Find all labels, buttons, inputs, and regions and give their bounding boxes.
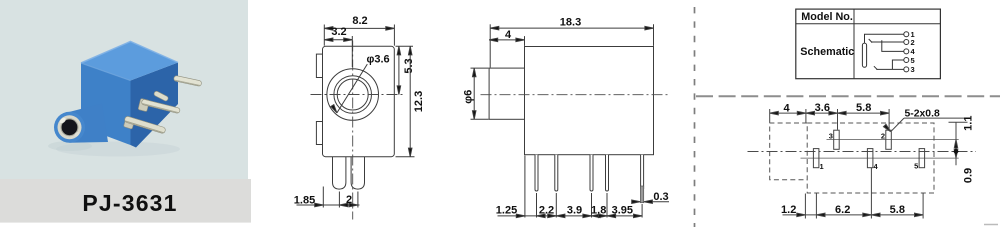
svg-text:Model No.: Model No. [801,11,853,23]
dimension 4 [489,29,524,46]
right dimensions 1.1 and 0.9 [949,116,975,184]
pcb centerline [748,151,977,153]
svg-text:5-2x0.8: 5-2x0.8 [905,109,940,120]
dimension 3.2 [324,26,352,67]
svg-text:6.2: 6.2 [835,204,850,216]
barrel hole [62,119,78,135]
pad 2 [886,130,892,149]
svg-text:1.8: 1.8 [591,204,606,216]
svg-text:3.2: 3.2 [331,26,346,38]
upper pad row line [827,139,959,141]
svg-text:3.6: 3.6 [815,102,830,114]
schematic plug bar [862,43,866,67]
horizontal centerline [311,94,404,96]
svg-text:5.8: 5.8 [890,204,905,216]
connector pin bottom lug [124,116,166,134]
wire row 5 with drop to row 3 [892,60,903,69]
junction drop wire 2-4 [882,40,904,51]
wire row 2 [871,41,904,43]
slot size callout 5-2x0.8 [883,109,968,133]
horizontal crop dash line [696,95,1000,97]
pad 1 [813,149,819,168]
side pin 5 lower gray portion [640,186,643,203]
dimension 1.85 and 2 [294,187,360,208]
barrel cylinder collar [70,104,109,143]
wire row 3 [876,68,904,70]
svg-text:4: 4 [783,102,790,114]
bottom dimension chain 1.2 6.2 5.8 [781,168,923,219]
svg-text:φ6: φ6 [463,90,475,104]
side pin 3 [590,155,593,191]
bottom dimension chain 1.25 2.2 3.9 1.8 3.95 [496,156,642,218]
side pin 5 [641,155,644,189]
side body outline [525,47,654,155]
dimension 12.3 [396,46,426,156]
bottom-right faint crop dash [984,224,998,226]
top edge highlight [81,42,178,64]
svg-text:4: 4 [874,162,879,171]
svg-text:1.1: 1.1 [963,116,975,131]
dimension 8.2 [324,15,394,46]
front left tab lower [316,122,322,145]
svg-text:8.2: 8.2 [352,15,367,27]
side barrel outline [489,68,524,119]
jack opening circles [327,69,379,121]
front left tab upper [316,54,322,77]
connector pin top-right [173,75,202,86]
svg-text:Schematic: Schematic [800,46,854,58]
dimension 0.3 pin thickness [632,191,669,203]
connector body right face [131,63,179,148]
terminal circle 5 [904,58,909,63]
svg-text:3: 3 [911,65,915,74]
side pin 4 [606,155,609,191]
terminal circle 1 [904,32,909,37]
pad 4 [867,149,873,168]
table column divider [853,9,855,79]
ring highlight [59,117,67,125]
wire to terminal 1 [865,34,904,43]
front body outline [323,46,395,156]
front-top edge highlight [81,63,131,81]
table outer border [796,9,941,79]
front pin left [333,157,346,189]
pad 5 [919,149,925,168]
svg-text:18.3: 18.3 [560,17,581,29]
vertical crop dash line [694,7,696,227]
svg-text:0.9: 0.9 [963,168,975,183]
switch tick row 3 [874,66,878,70]
dimension phi3.6 leader [331,54,390,114]
top dimension chain 4 3.6 5.8 [770,102,889,130]
connector pin middle stub [138,98,150,111]
svg-text:5: 5 [911,56,915,65]
terminal circle 4 [904,49,909,54]
switch tick row 2 [869,39,873,43]
connector pin small [153,91,169,102]
footprint dashed outline left block [770,123,808,180]
dimension 5.3 [396,46,416,94]
model label panel [0,179,251,223]
svg-text:PJ-3631: PJ-3631 [82,190,177,216]
barrel rim shading [55,132,85,143]
vertical centerline [352,41,354,220]
svg-text:2: 2 [346,194,352,206]
svg-text:5: 5 [914,162,918,171]
side pin 2 [555,155,558,191]
side pin 1 [535,155,538,191]
table header divider [796,23,941,25]
svg-text:12.3: 12.3 [413,91,425,112]
connector pin middle [141,99,180,114]
lower pad row line [801,157,959,159]
svg-text:2: 2 [881,132,885,141]
terminal circle 3 [904,67,909,72]
svg-text:0.3: 0.3 [653,191,668,203]
footprint dashed outline main block [807,123,934,193]
horizontal centerline [481,94,668,96]
svg-text:1.25: 1.25 [496,204,517,216]
connector pin bottom lug stub [123,117,135,130]
svg-text:5.8: 5.8 [856,102,871,114]
svg-text:3.9: 3.9 [567,204,582,216]
front pin right [351,157,364,189]
connector body top face [81,42,178,81]
product shadow [56,142,180,157]
barrel front rim [54,112,85,143]
pad 3 [834,130,840,149]
svg-text:1: 1 [820,162,824,171]
barrel metal ring [58,115,82,139]
svg-text:1.2: 1.2 [781,204,796,216]
svg-text:φ3.6: φ3.6 [367,54,390,66]
svg-text:1.85: 1.85 [294,195,315,207]
svg-text:5.3: 5.3 [403,58,415,73]
terminal circle 2 [904,40,909,45]
svg-text:4: 4 [505,29,512,41]
svg-text:2.2: 2.2 [539,204,554,216]
svg-text:3.95: 3.95 [612,204,633,216]
photo background panel [0,0,248,179]
dimension phi6 [463,68,489,119]
svg-text:2: 2 [911,38,915,47]
svg-text:3: 3 [829,132,833,141]
dimension 18.3 [490,17,653,68]
connector body front face [81,63,131,145]
